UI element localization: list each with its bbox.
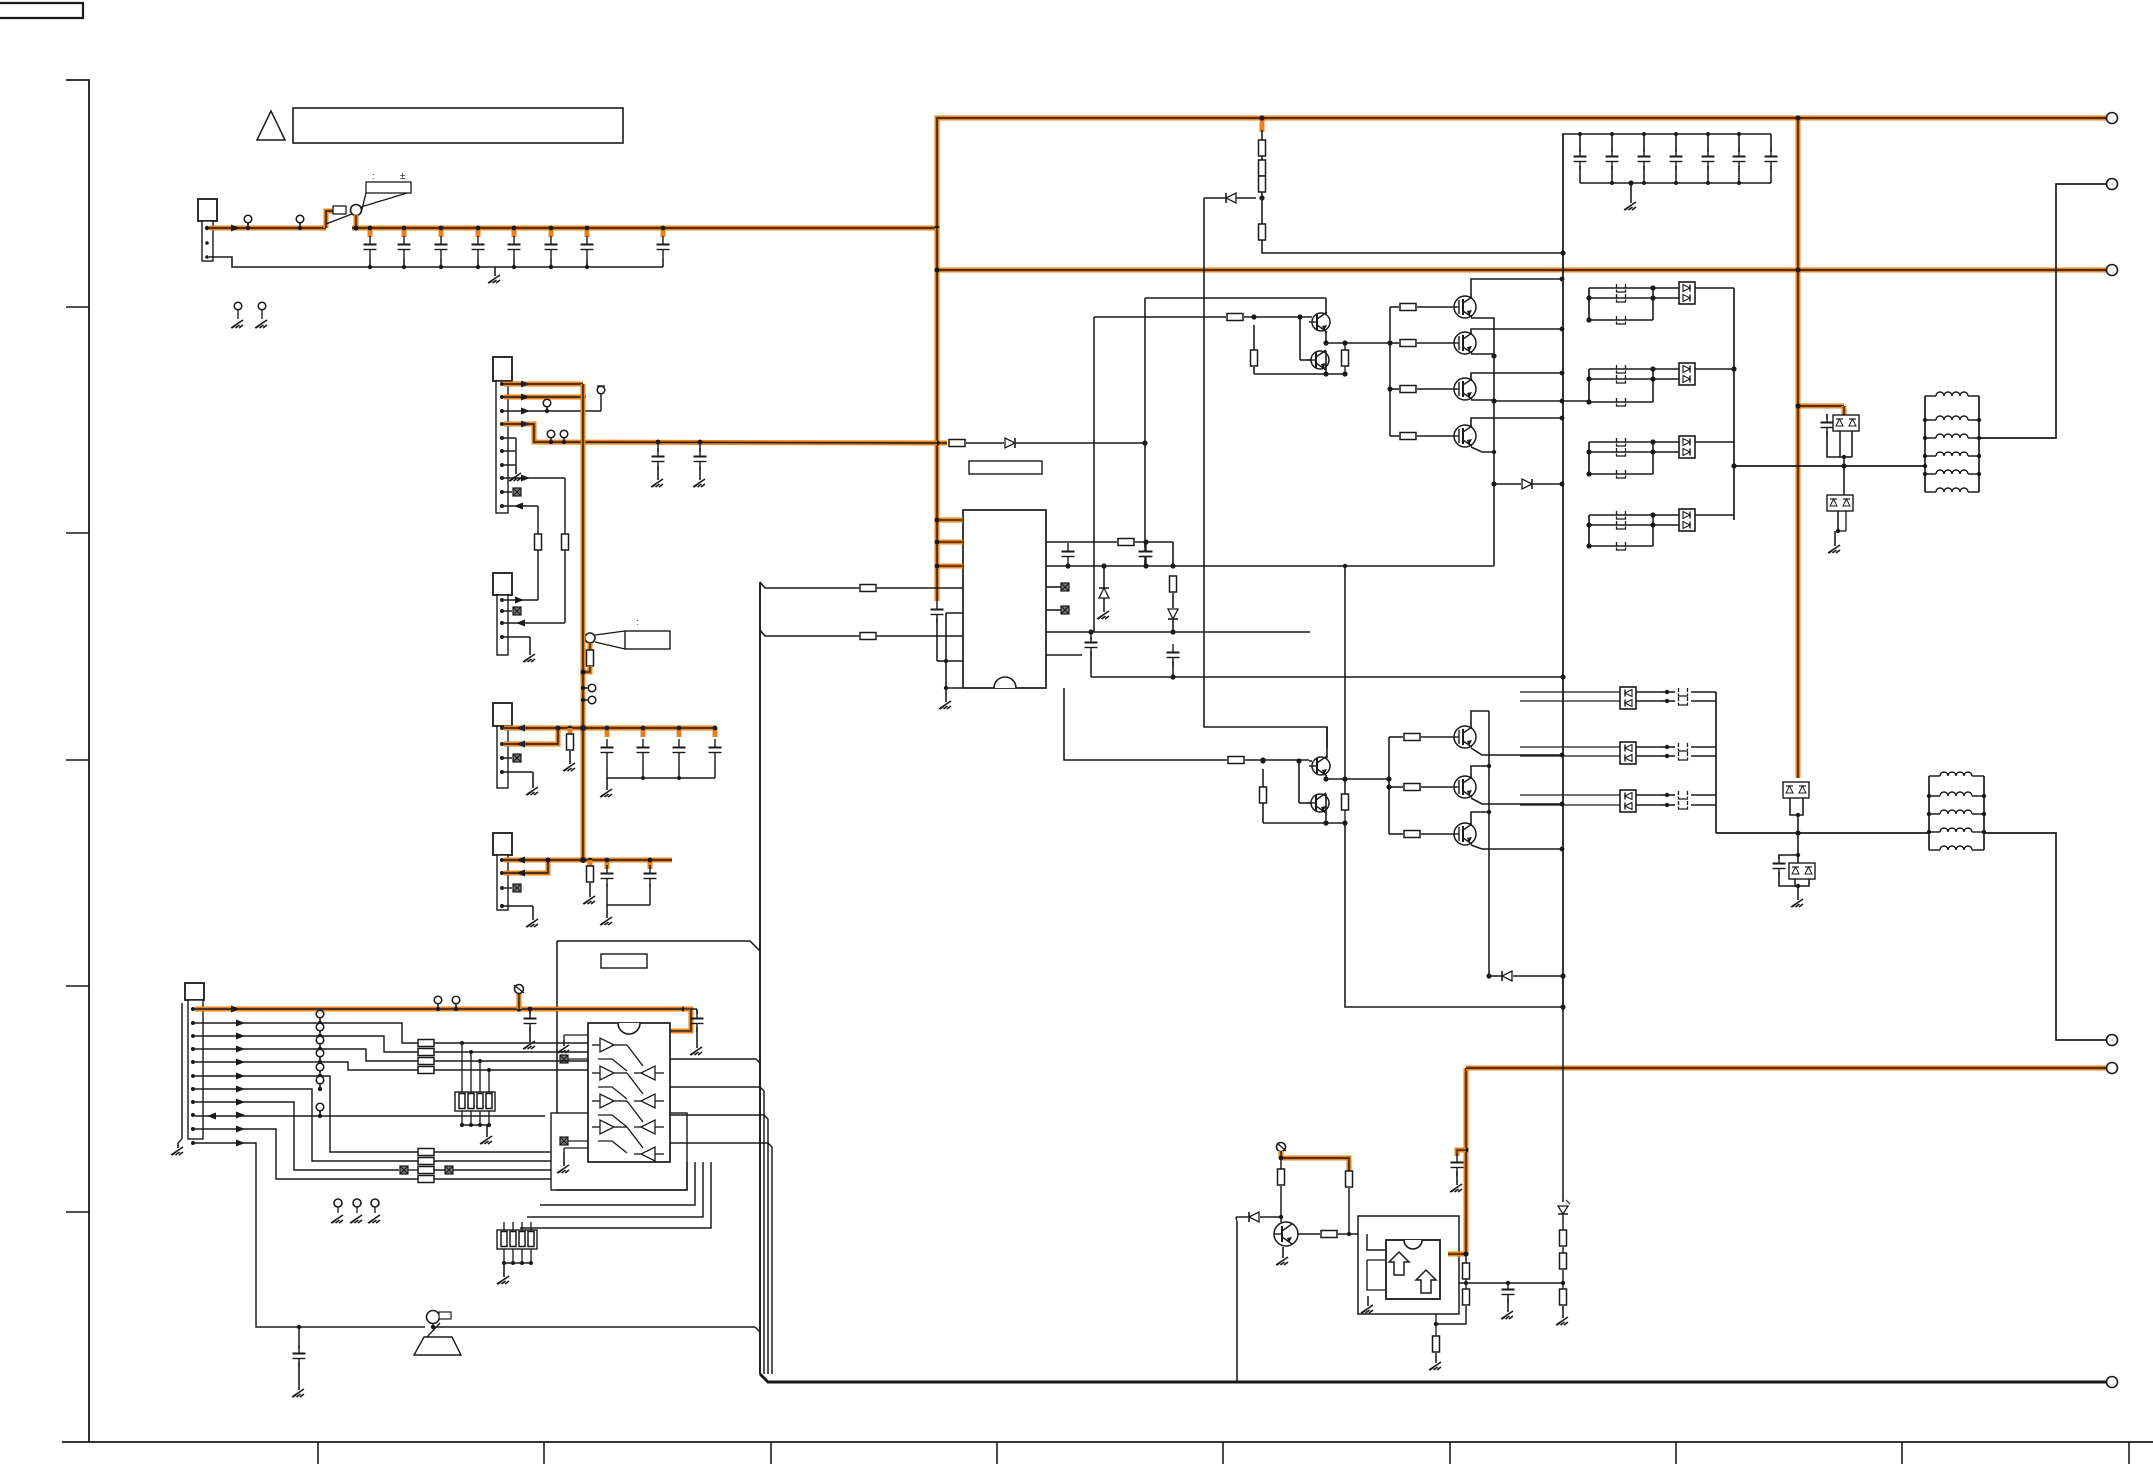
resistor R94 [1463, 1289, 1470, 1305]
resistor RP1 element [477, 1094, 483, 1109]
left ruler tick [66, 1211, 89, 1213]
transistor Q603 IGBT [1454, 425, 1476, 447]
wire feed [1520, 755, 1620, 757]
wire long bottom bus [760, 1374, 2106, 1382]
wire [1488, 711, 1490, 976]
wire [1589, 297, 1653, 299]
wire base bus [1389, 307, 1391, 436]
wire stub [677, 728, 682, 737]
wire [427, 1323, 440, 1337]
CN3 pin [500, 635, 504, 639]
resistor RP2 element [519, 1232, 525, 1247]
net symbol [513, 607, 521, 615]
orange wire from terminal [1464, 1068, 1469, 1254]
CN1 pin 2 [205, 241, 209, 245]
wire [1653, 441, 1679, 443]
wire [504, 599, 538, 601]
wire to IC601 [434, 1060, 588, 1062]
CN4 pin [500, 742, 504, 746]
wire stub [605, 860, 610, 869]
wire [503, 1222, 505, 1230]
CN5 pin [500, 858, 504, 862]
wire [1653, 368, 1679, 370]
wire IC601 output [670, 1143, 772, 1374]
wire [1465, 1254, 1467, 1263]
wire right bus [1733, 288, 1735, 520]
terminal signal out [2107, 1377, 2118, 1388]
resistor R50 [1227, 314, 1243, 321]
resistor R63 [1400, 433, 1416, 440]
wire stub [402, 228, 407, 237]
resistor R54 [1342, 794, 1349, 810]
resistor R45 [1228, 757, 1244, 764]
wire [1262, 769, 1264, 787]
wire [714, 761, 716, 778]
fuse F2 holder [585, 633, 595, 643]
wire stub [1260, 118, 1265, 132]
callout leader [595, 631, 625, 635]
resistor R83 [567, 734, 574, 750]
transistor Q702 IGBT [1454, 823, 1476, 845]
wire drive in [1094, 316, 1226, 318]
wire to IC601 [434, 1069, 588, 1071]
buffer gate 0a [600, 1038, 614, 1052]
capacitor C42 [1140, 551, 1153, 553]
wire stub [661, 228, 666, 237]
wire rail [504, 1262, 531, 1264]
ground [529, 637, 531, 655]
wire pin [946, 612, 963, 614]
wire [1636, 700, 1659, 702]
wire to base bus [1326, 342, 1390, 344]
svg-text::: : [636, 617, 639, 627]
capacitor C12 [435, 244, 448, 246]
wire stub [549, 228, 554, 237]
wire feed [1520, 746, 1620, 748]
capacitor C91 [691, 1018, 704, 1020]
orange wire opto supply [1281, 1158, 1349, 1171]
wire [1367, 1234, 1385, 1250]
wire [1325, 298, 1327, 314]
wire winding right rail [1983, 776, 1985, 850]
wire [1489, 975, 1501, 977]
ground [1834, 531, 1836, 546]
inductor L24 [1940, 846, 1972, 850]
CN6 pin [191, 1113, 195, 1117]
diode pack [1679, 436, 1695, 458]
wire [1636, 794, 1659, 796]
CN6 pin [191, 1047, 195, 1051]
wire [1390, 435, 1399, 437]
wire [1326, 778, 1389, 780]
wire Q603 collector [1471, 418, 1562, 426]
wire [1471, 353, 1494, 355]
resistor R72 [1404, 831, 1420, 838]
wire ground return [209, 257, 370, 267]
wire IC601 output [670, 1115, 768, 1374]
wire U501 RT [1046, 631, 1310, 633]
wire [655, 1100, 664, 1102]
wire [354, 215, 359, 228]
capacitor C90 [524, 1018, 537, 1020]
CN2 pin [500, 449, 504, 453]
CN6 pin [191, 1141, 195, 1145]
wire stub [713, 728, 718, 737]
wire [1091, 676, 1563, 678]
wire [592, 1072, 600, 1074]
wire [298, 1327, 300, 1349]
diode pack [1620, 687, 1636, 709]
diode pack [1679, 363, 1695, 385]
CN2 pin [500, 476, 504, 480]
wire to terminal [1979, 184, 2106, 438]
wire stub [476, 228, 481, 237]
orange stub into opto [1448, 1252, 1466, 1257]
capacitor C17 [657, 244, 670, 246]
wire [1236, 1216, 1248, 1218]
capacitor C23 [1670, 156, 1683, 158]
ground [486, 1125, 488, 1137]
wire Q700 collector [1471, 711, 1489, 727]
wire [1643, 134, 1645, 152]
wire [1172, 661, 1174, 677]
orange wire 15V rail [504, 726, 716, 731]
terminal orange out [2107, 1063, 2118, 1074]
wire [1579, 134, 1581, 152]
diode pack [1679, 282, 1695, 304]
CN3 pin [500, 621, 504, 625]
wire [461, 1111, 463, 1125]
connector CN1 shell [198, 199, 217, 221]
capacitor C14 [508, 244, 521, 246]
wire output bus [1471, 318, 1494, 566]
wire [1738, 134, 1740, 152]
SCR pack D73 [1783, 782, 1809, 798]
TVS pack D71 [1827, 495, 1853, 511]
wire [479, 1111, 481, 1125]
CN4 pin [500, 770, 504, 774]
wire rail [607, 777, 715, 779]
inductor L13 [1936, 452, 1968, 456]
capacitor C25 [1733, 156, 1746, 158]
left ruler tick [66, 306, 89, 308]
wire U501 CT [1046, 565, 1494, 567]
wire CN6-6 [195, 1076, 418, 1152]
fuse link [1617, 511, 1626, 519]
capacitor C10 [364, 244, 377, 246]
wire crossover [627, 1045, 643, 1066]
resistor R84 [587, 866, 594, 882]
wire crossover [627, 1127, 643, 1148]
orange wire 5V rail [504, 858, 672, 863]
wire [1695, 287, 1734, 289]
wire [504, 610, 512, 612]
wire [1172, 593, 1174, 608]
capacitor C13 [472, 244, 485, 246]
wire CN2-6 [504, 450, 516, 452]
bottom ruler tick [543, 1442, 545, 1464]
wire [1589, 319, 1653, 321]
wire to spine [1262, 240, 1563, 253]
wire [1348, 1188, 1350, 1234]
ground [606, 905, 608, 918]
wire [504, 887, 512, 889]
wire stub [585, 228, 590, 237]
ground [1435, 1353, 1437, 1363]
resistor R31 [1259, 160, 1266, 176]
CN2 pin [500, 504, 504, 508]
diode D90 [1249, 1212, 1259, 1222]
wire [1589, 451, 1653, 453]
wire [1390, 306, 1399, 308]
connector CN2 shell [493, 357, 512, 381]
resistor RP2 element [528, 1232, 534, 1247]
wire [642, 761, 644, 778]
fuse value label box [366, 182, 411, 193]
wire group bus [1588, 288, 1590, 320]
net symbol [1061, 583, 1069, 591]
capacitor C80 [673, 747, 686, 749]
resistor R52a [1342, 350, 1349, 366]
wire [592, 1044, 600, 1046]
wire CN6-5 [195, 1062, 418, 1070]
wire [1436, 1306, 1466, 1324]
note box [293, 108, 623, 143]
wire [592, 1126, 600, 1128]
wire collector feed [1326, 727, 1328, 758]
notch [1404, 1240, 1422, 1249]
test point [547, 430, 555, 438]
wire [403, 258, 405, 267]
fuse link [1679, 697, 1688, 705]
wire [1652, 288, 1654, 320]
resistor R93 [1463, 1263, 1470, 1279]
wire [1653, 514, 1679, 516]
wire CN6-9 [195, 1115, 545, 1117]
net symbol [445, 1166, 453, 1174]
wire [1839, 431, 1841, 457]
wire Q702 collector [1471, 812, 1489, 824]
wire CN6-3 [195, 1036, 418, 1052]
orange branch to SCR pack [1798, 404, 1844, 409]
opto coupler PC90 outline [1358, 1216, 1459, 1314]
CN5 pin [500, 871, 504, 875]
wire [1790, 798, 1803, 815]
wire pin [946, 687, 963, 689]
resistor array RA1-2 [418, 1058, 434, 1065]
wire group bus [1588, 442, 1590, 474]
wire beeper signal [433, 1326, 755, 1328]
resistor R30 [1259, 140, 1266, 156]
test point [560, 430, 568, 438]
transistor Q600 IGBT [1454, 296, 1476, 318]
inductor L12 [1936, 434, 1968, 438]
wire [588, 643, 593, 650]
terminal Vcc2 [1277, 1143, 1286, 1152]
fuse link [1679, 791, 1688, 799]
orange wire aux bus lower [581, 633, 586, 860]
wire [537, 550, 539, 600]
wire crossover [598, 1087, 627, 1099]
wire [1254, 373, 1345, 375]
wire [1016, 442, 1145, 444]
orange stub to terminal [517, 994, 522, 1009]
bottom margin ruler [62, 1441, 2153, 1443]
diode D30 [1226, 193, 1236, 203]
wire [1695, 514, 1734, 516]
wire wrap [527, 1162, 703, 1217]
wire Q701 collector [1471, 766, 1489, 777]
ground [563, 1152, 565, 1166]
wire [1204, 197, 1226, 199]
junction [698, 440, 703, 445]
bottom ruler tick [1901, 1442, 1903, 1464]
wire [1172, 542, 1174, 566]
CN6 pin [191, 1074, 195, 1078]
left ruler tick [66, 985, 89, 987]
test point [452, 996, 460, 1004]
wire [1262, 803, 1264, 823]
ground [503, 1263, 505, 1277]
orange wire from CN2-1 [504, 382, 583, 387]
CN6 pin [191, 1127, 195, 1131]
wire [1389, 736, 1403, 738]
orange wire 15V to PWM area [504, 424, 937, 443]
wire [461, 1043, 463, 1092]
buffer gate 2b [641, 1120, 655, 1134]
inductor L11 [1936, 416, 1968, 420]
wire [1797, 833, 1799, 855]
wire [606, 761, 608, 778]
IC label box [969, 461, 1042, 474]
wire [1263, 822, 1345, 824]
wire [1691, 691, 1716, 693]
CN6 pin [191, 1007, 195, 1011]
left margin ruler [66, 80, 89, 1442]
wire [1589, 378, 1653, 380]
wire [1843, 466, 1845, 495]
CN4 pin [500, 756, 504, 760]
wire [1691, 746, 1716, 748]
wire [678, 761, 680, 778]
test point [543, 399, 551, 407]
resistor R96 [1560, 1230, 1567, 1246]
wire stub [641, 728, 646, 737]
resistor R32 [1259, 176, 1266, 192]
wire [440, 258, 442, 267]
wire [503, 1249, 505, 1263]
wire CN2-8 [504, 477, 565, 479]
wire [550, 258, 552, 267]
wire [564, 550, 566, 623]
wire feed [1520, 691, 1620, 693]
wire base bus [1388, 737, 1390, 834]
resistor R92 [1321, 1231, 1337, 1238]
wire pin stub [1046, 586, 1061, 588]
wire [504, 757, 512, 759]
wire [1695, 368, 1734, 370]
bottom ruler tick [996, 1442, 998, 1464]
resistor array RA1-1 [418, 1049, 434, 1056]
wire section outline top [557, 941, 760, 951]
wire feedback line [760, 582, 859, 588]
wire vertical x=1345 [1344, 566, 1346, 794]
wire to IC601 [434, 1051, 588, 1053]
capacitor C93 [1451, 1162, 1464, 1164]
orange wire [504, 860, 548, 873]
wire [1797, 815, 1799, 833]
terminal motor B [2107, 1035, 2118, 1046]
wire phase out [1494, 400, 1589, 402]
inductor L10 [1936, 392, 1968, 396]
wire [1589, 368, 1653, 370]
wire feed [1520, 804, 1620, 806]
IC601 hex buffer [588, 1023, 670, 1162]
beeper body [414, 1337, 461, 1355]
wire [1691, 794, 1716, 796]
wire Q521 collector [1325, 794, 1327, 823]
connector CN4 shell [493, 703, 512, 726]
terminal bus B out [2107, 265, 2118, 276]
connector CN5 shell [493, 833, 512, 855]
test point gnd [258, 302, 266, 310]
resistor R42 [860, 633, 876, 640]
wire [1611, 134, 1613, 152]
wire [691, 1008, 697, 1010]
wire [1589, 545, 1653, 547]
wire [1589, 473, 1653, 475]
wire [568, 1140, 588, 1142]
wire Q600 collector [1471, 279, 1562, 297]
test point [334, 1199, 342, 1207]
wire [1653, 451, 1679, 453]
wire vertical x=1094 [1093, 317, 1095, 632]
IC U501 notch [994, 677, 1016, 688]
wire emitter join [1325, 331, 1327, 343]
capacitor C22 [1638, 156, 1651, 158]
bottom ruler tick [1449, 1442, 1451, 1464]
resistor R81 [562, 534, 569, 550]
wire winding right rail [1978, 396, 1980, 492]
terminal +B out [2107, 113, 2118, 124]
wire [1652, 369, 1654, 402]
wire [1280, 1186, 1282, 1222]
buffer gate 0b [641, 1066, 655, 1080]
CN2 pin [500, 490, 504, 494]
orange stub [1457, 1150, 1466, 1156]
resistor R91 [1346, 1171, 1353, 1187]
orange pin stub U501 y=566 [937, 564, 963, 569]
resistor R53 [1260, 787, 1267, 803]
bottom ruler tick [2128, 1442, 2130, 1464]
wire [1827, 431, 1844, 457]
wire to IC601 [434, 1042, 588, 1044]
inductor L23 [1940, 828, 1972, 832]
wire [1589, 401, 1653, 403]
CN2 pin [500, 422, 504, 426]
capacitor C94 [1502, 1289, 1515, 1291]
wire [662, 258, 664, 267]
capacitor C20 [1574, 156, 1587, 158]
resistor R44 [1170, 576, 1177, 592]
wire Q511 collector [1325, 351, 1327, 369]
wire [699, 442, 701, 452]
wire [657, 442, 659, 452]
orange wire aux bus [581, 384, 586, 633]
wire IC601 output [670, 1087, 764, 1374]
wire [1435, 1314, 1437, 1324]
wire [1653, 287, 1679, 289]
